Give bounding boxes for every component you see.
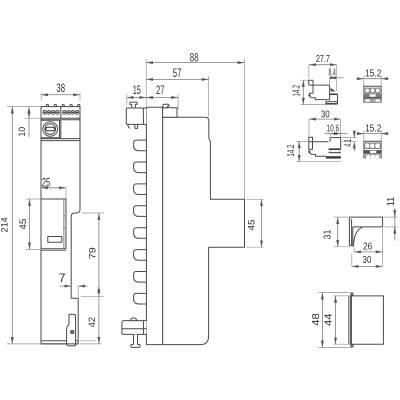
base element B outline (309, 137, 329, 156)
svg-text:45: 45 (247, 220, 258, 231)
svg-text:8.4: 8.4 (329, 68, 337, 79)
svg-text:10.6: 10.6 (327, 123, 340, 134)
front view base line (41, 340, 78, 342)
terminal D slot (370, 151, 377, 153)
dimension 11 (385, 196, 398, 240)
dimension 31 (323, 217, 351, 247)
terminal D dark band (364, 150, 381, 153)
box body (351, 296, 384, 344)
SIDE VIEW (122, 50, 264, 347)
svg-text:31: 31 (323, 229, 334, 239)
terminal D lower band (364, 154, 381, 160)
svg-text:79: 79 (88, 247, 99, 259)
dimension 27 (146, 83, 178, 110)
FIG D terminal 15.2 bottom (356, 123, 388, 159)
side view base slab (146, 107, 162, 344)
terminal C dark band (364, 94, 381, 98)
terminal D hole band (364, 142, 381, 149)
dimension 48 (311, 293, 350, 348)
dimension 7 (59, 271, 88, 298)
dimension 44 (323, 296, 350, 344)
svg-text:11: 11 (386, 196, 397, 206)
FIG E bracket (323, 196, 398, 266)
dimension 27.7 (309, 54, 337, 91)
bracket gusset (353, 227, 362, 247)
terminal C holes (365, 88, 380, 93)
svg-text:88: 88 (190, 50, 199, 64)
svg-text:30: 30 (321, 109, 330, 120)
svg-text:14.2: 14.2 (291, 85, 302, 97)
front view DIN clip (67, 314, 76, 346)
svg-text:214: 214 (0, 217, 11, 233)
bracket leg (349, 217, 351, 246)
terminal D body (364, 141, 381, 158)
base element B right block (330, 138, 341, 149)
svg-text:27.7: 27.7 (316, 54, 330, 65)
svg-text:26: 26 (363, 241, 373, 252)
dimension 45 front (18, 199, 41, 249)
dimension 10.6 (325, 123, 348, 137)
dimension 14.2 A (291, 80, 337, 104)
base element A right edge (337, 94, 339, 101)
front view test socket (41, 120, 60, 138)
svg-text:57: 57 (173, 66, 182, 80)
box bottom tab (350, 344, 353, 347)
dimension 42 (80, 286, 102, 344)
front view cutout window (41, 199, 66, 250)
svg-text:38: 38 (56, 81, 65, 95)
front view latch marks (63, 214, 65, 230)
dimension 15 (127, 83, 146, 106)
front view top mounting tabs (46, 105, 80, 107)
terminal C slot (370, 94, 376, 96)
base element A wedge (331, 88, 336, 92)
dimension 15.2 C (356, 68, 388, 86)
svg-text:25: 25 (42, 176, 51, 190)
dimension 30 B (309, 109, 341, 137)
front view body parting lines (41, 139, 80, 141)
base element B clip dot (308, 151, 310, 153)
box left plate (348, 296, 350, 344)
dimension 214 (0, 107, 41, 344)
svg-text:45: 45 (18, 219, 29, 230)
dimension 14.2 B (286, 141, 341, 161)
svg-text:42: 42 (87, 317, 98, 328)
box top tab (350, 292, 353, 296)
FRONT VIEW (0, 81, 104, 346)
base element A foot plate (326, 102, 338, 104)
svg-text:15.2: 15.2 (365, 68, 382, 79)
svg-text:4.1: 4.1 (343, 139, 354, 147)
base element A outline (309, 80, 330, 99)
dimension 45 side (247, 199, 264, 247)
side view top rail clip (126, 102, 146, 129)
dimension 38 (41, 81, 80, 101)
FIG F box (311, 292, 384, 347)
side view bottom rail clip (122, 318, 147, 348)
dimension 88 (146, 50, 244, 199)
dimension 4.1 (342, 131, 357, 152)
side view fins (134, 140, 147, 304)
base element A contact bar (330, 94, 338, 96)
box left edge accent (350, 296, 352, 344)
dimension 26 (354, 229, 382, 267)
dimension 15.2 D (356, 123, 388, 141)
svg-text:30: 30 (363, 255, 372, 266)
svg-text:15.2: 15.2 (365, 123, 382, 134)
FIG B base element 30 (286, 109, 357, 161)
terminal D holes (365, 143, 381, 149)
front view terminal block lines (41, 107, 80, 139)
svg-text:48: 48 (311, 313, 322, 326)
bracket outline (349, 217, 382, 247)
front view terminal screws (43, 111, 79, 115)
svg-text:15: 15 (133, 83, 141, 97)
svg-text:44: 44 (323, 313, 334, 326)
svg-text:14.2: 14.2 (286, 145, 297, 157)
terminal C lower band (364, 98, 381, 102)
dimension 8.4 (329, 68, 344, 85)
dimension 10 (17, 107, 41, 137)
front view module outline (41, 107, 80, 344)
side view body outline (163, 117, 245, 344)
dimension 30 E (352, 253, 383, 266)
front view window slot (48, 237, 62, 243)
svg-text:27: 27 (156, 83, 165, 97)
dimension 79 (81, 213, 104, 296)
base element A clip dot (308, 94, 310, 96)
terminal C hole band (364, 88, 381, 94)
side view top raised block (163, 104, 177, 117)
dimension 57 (146, 66, 208, 117)
FIG A base element 27.7 (291, 54, 343, 105)
FIG C terminal 15.2 top (356, 68, 388, 102)
front view bottom edge over clip (41, 343, 78, 345)
base element B contact bars (326, 148, 341, 158)
svg-text:7: 7 (59, 271, 66, 285)
terminal C body (364, 86, 381, 102)
dimension 25 (41, 176, 66, 199)
svg-text:10: 10 (17, 127, 28, 137)
